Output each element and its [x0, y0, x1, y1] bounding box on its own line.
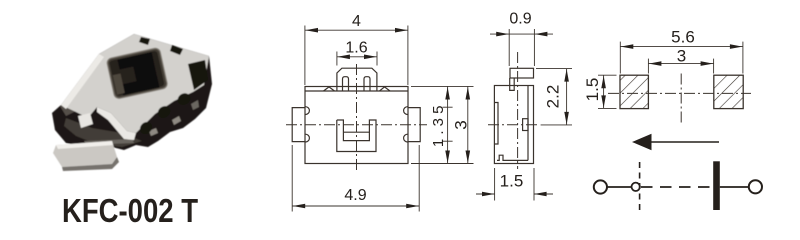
side left terminal	[494, 103, 498, 145]
front cover tab triangle left	[324, 87, 335, 91]
photo terminal speck 2	[172, 116, 181, 125]
photo cover bright left bevel	[61, 54, 104, 109]
photo terminal speck 1	[149, 128, 158, 136]
photo white side tab	[78, 113, 93, 128]
land dimension 5.6	[620, 42, 743, 74]
svg-text:KFC-002 T: KFC-002 T	[62, 192, 198, 228]
photo right corner nub	[188, 60, 208, 90]
front left tab	[292, 108, 305, 142]
front actuator slot left	[343, 77, 349, 91]
photo body gray sheen lower-left	[64, 118, 142, 147]
front U contact inner line	[343, 131, 369, 133]
svg-text:4.9: 4.9	[344, 187, 366, 204]
photo actuator top flange	[117, 52, 153, 69]
front right tab bump bottom	[404, 134, 408, 142]
photo cover bottom bright bevel	[97, 107, 136, 140]
land centerline vertical	[680, 74, 682, 126]
front right tab	[408, 108, 420, 142]
side centerline vertical	[517, 52, 519, 169]
front dimension 4.9	[292, 145, 419, 212]
side actuator	[510, 68, 534, 78]
photo actuator bottom flange	[121, 77, 160, 96]
schematic horizontal dashed link	[641, 186, 713, 188]
photo metal foot highlight	[56, 141, 113, 149]
photo cover notch 1	[139, 37, 150, 45]
svg-text:1.6: 1.6	[345, 40, 367, 57]
photo window group	[106, 47, 168, 99]
land dimension 3	[648, 59, 713, 74]
schematic left terminal circle	[594, 180, 607, 193]
side body outline	[494, 86, 533, 164]
land dimension 1.5	[598, 75, 617, 108]
photo terminal speck 3	[191, 100, 199, 110]
photo metal foot shadow	[62, 157, 119, 171]
front dimension 3 line	[467, 87, 469, 164]
svg-text:1.35: 1.35	[430, 106, 447, 148]
front actuator outline	[337, 68, 377, 91]
front dimension 4	[305, 26, 408, 86]
side bottom inner line	[497, 155, 528, 160]
side dimension 2.2	[536, 69, 572, 125]
front left tab bump bottom	[306, 134, 310, 142]
front body outline	[305, 87, 408, 164]
photo metal foot top	[53, 141, 117, 167]
photo boundary bump 1	[176, 91, 193, 107]
land pad right	[714, 75, 743, 108]
side body inner right line	[527, 86, 529, 161]
front actuator slot right	[364, 77, 370, 91]
photo metal cover top face	[61, 34, 209, 133]
photo boundary bump 3	[138, 120, 155, 137]
side dimension 0.9	[490, 29, 553, 66]
land pad left	[620, 75, 648, 108]
svg-text:0.9: 0.9	[509, 10, 531, 27]
photo left post gray top	[60, 100, 78, 116]
schematic movable contact circle	[632, 183, 640, 191]
photo body gray streak	[84, 139, 134, 145]
photo actuator stem	[131, 52, 159, 92]
schematic wire right	[720, 186, 749, 188]
photo window left shine	[113, 73, 125, 94]
photo cover notch 2	[170, 45, 183, 55]
front centerline horizontal	[286, 124, 427, 126]
front left tab bump top	[306, 107, 310, 115]
front right extension lines	[411, 86, 474, 163]
svg-text:3: 3	[677, 46, 686, 65]
land centerline horizontal	[608, 92, 751, 94]
front cover tab triangle right	[380, 87, 391, 91]
side centerline horizontal	[488, 124, 540, 126]
svg-text:3: 3	[452, 120, 471, 129]
front dimension 1.35 line	[447, 87, 449, 164]
front right tab bump top	[404, 107, 408, 115]
front U contact	[337, 120, 376, 152]
side bump	[523, 119, 528, 131]
svg-text:2.2: 2.2	[544, 85, 563, 109]
schematic push arrow	[648, 141, 719, 143]
svg-text:1.5: 1.5	[583, 78, 602, 102]
svg-text:1.5: 1.5	[500, 172, 524, 191]
photo boundary bump 2	[155, 104, 172, 121]
front centerline vertical	[356, 64, 358, 173]
schematic vertical dashed line	[639, 162, 641, 212]
svg-text:5.6: 5.6	[671, 28, 695, 47]
schematic actuator bar	[713, 161, 720, 210]
side cover clip	[510, 78, 515, 90]
svg-text:4: 4	[352, 13, 361, 30]
front dimension 1.6	[337, 52, 377, 66]
schematic wire left	[607, 186, 631, 188]
side dimension 1.5	[476, 168, 553, 201]
schematic right terminal circle	[749, 180, 762, 193]
front body top inner line	[305, 90, 408, 92]
photo body black base silhouette	[52, 34, 212, 150]
